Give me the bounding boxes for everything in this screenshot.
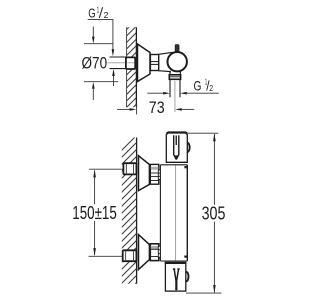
- svg-text:305: 305: [202, 204, 226, 224]
- extension line lower inlet axis: [89, 255, 123, 257]
- svg-text:G: G: [88, 5, 95, 20]
- dimension G1/2 at outlet (top view): [147, 76, 219, 94]
- lower arrow of G1/2 pipe dimension (top view): [112, 69, 115, 86]
- body centerline: [175, 166, 177, 261]
- safestop button bump (bottom knob): [186, 272, 188, 282]
- svg-text:2: 2: [104, 10, 109, 20]
- hex nut behind wall (top view): [126, 57, 135, 69]
- svg-text:2: 2: [209, 83, 213, 93]
- dimension 150±15 (front view): [72, 170, 117, 256]
- escutcheon cone lower inlet (front view): [139, 235, 150, 270]
- svg-text:Ø70: Ø70: [82, 55, 108, 73]
- dimension 305 (front view): [186, 133, 225, 293]
- connector boss lower inlet: [158, 246, 160, 257]
- valve body wedge (top view): [159, 52, 172, 71]
- escutcheon cone upper inlet (front view): [139, 156, 150, 191]
- top knob (temperature handle): [166, 133, 187, 163]
- label G1/2 (upper left): [88, 4, 108, 20]
- button mark top right of body: [184, 166, 186, 168]
- escutcheon cone (top view): [138, 44, 151, 82]
- outlet neck below body (top view): [170, 71, 181, 75]
- knurled nut lower inlet (front view): [150, 244, 159, 261]
- valve body circle (top view): [168, 52, 187, 71]
- knurled union nut (top view): [150, 55, 158, 71]
- top knob grip mark: [174, 135, 179, 159]
- square union nut lower inlet: [123, 250, 137, 261]
- extension line upper inlet axis: [89, 168, 123, 170]
- outlet pipe (top view): [170, 79, 180, 97]
- leader line for upper G1/2: [88, 20, 115, 57]
- dimension 73 (top view): [117, 99, 194, 117]
- outlet union nut (top view): [169, 75, 180, 80]
- wall (top view, hatched strip): [124, 16, 140, 123]
- button mark bottom right of body: [184, 256, 187, 258]
- cap screw on top of valve body (top view): [175, 45, 179, 53]
- svg-text:1: 1: [205, 76, 207, 86]
- svg-text:1: 1: [97, 4, 100, 14]
- svg-text:73: 73: [149, 99, 165, 117]
- main body column (front view): [160, 165, 187, 261]
- dimension Ø70 (top view): [82, 27, 119, 101]
- square union nut upper inlet: [123, 163, 136, 174]
- pipe behind wall (top view): [110, 57, 128, 69]
- centerline of pipe behind wall: [108, 62, 136, 64]
- knurled nut upper inlet (front view): [150, 164, 159, 184]
- connector boss upper inlet: [158, 170, 160, 179]
- svg-text:G: G: [194, 77, 202, 93]
- safestop button bump (top knob): [187, 143, 189, 153]
- bottom knob grip mark: [173, 269, 180, 290]
- wall line with hatching (front view): [119, 134, 138, 300]
- outlet centerline: [174, 81, 176, 112]
- svg-text:150±15: 150±15: [72, 203, 117, 223]
- bottom knob (volume handle): [165, 262, 187, 291]
